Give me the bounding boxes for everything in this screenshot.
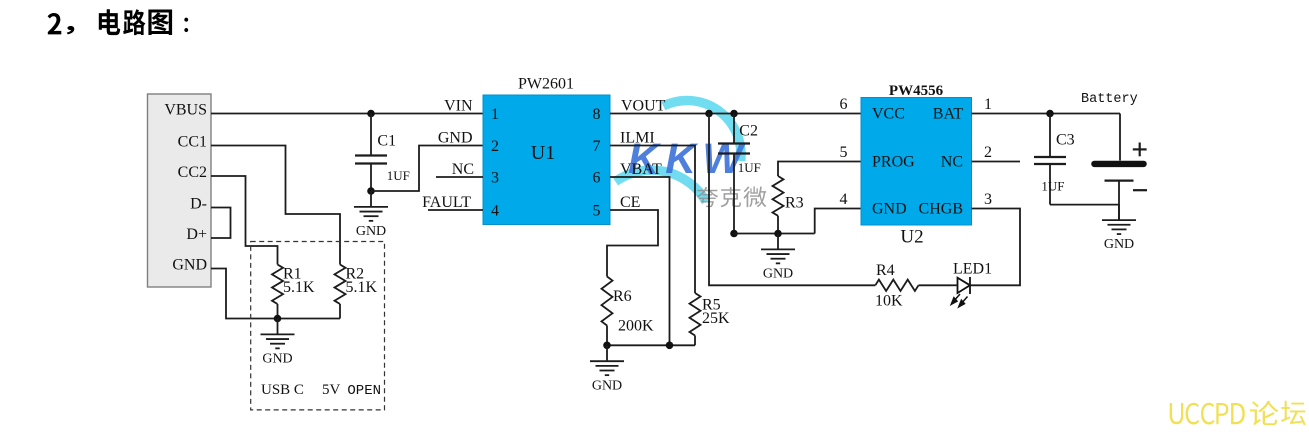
op-chip U1 PW2601 body: [483, 76, 610, 225]
resistor R4: [875, 262, 951, 310]
capacitor C1: [355, 114, 410, 192]
wire CHGB to LED: [970, 209, 1020, 286]
wire D- to D+ bracket: [211, 208, 231, 239]
svg-text:3: 3: [984, 191, 992, 208]
svg-text:GND: GND: [1104, 237, 1134, 252]
glyph P: [1216, 403, 1228, 424]
junction dot VOUT branch: [705, 110, 713, 118]
junction dot C2 top: [730, 110, 738, 118]
junction dot R6 bottom: [603, 342, 611, 350]
svg-text:GND: GND: [438, 129, 473, 146]
watermark KKW text: [628, 136, 749, 183]
watermark swoosh arc: [615, 101, 741, 202]
U2 NC stub wire: [972, 161, 1021, 163]
junction dot VBUS/C1: [367, 110, 375, 118]
LED D1 LED1: [951, 261, 992, 307]
svg-text:USB C: USB C: [261, 382, 304, 398]
wire U2 GND pin down: [815, 209, 861, 234]
watermark 夸克微 gray text: [697, 187, 767, 208]
svg-text:D+: D+: [186, 226, 207, 243]
svg-text:6: 6: [593, 170, 601, 187]
junction dot R1 bottom: [274, 315, 282, 323]
wire BAT to battery: [972, 113, 1121, 115]
svg-text:FAULT: FAULT: [422, 194, 471, 211]
title glyph dian: [99, 9, 120, 35]
svg-text:2: 2: [491, 138, 499, 155]
svg-text:GND: GND: [872, 201, 907, 218]
svg-text:C2: C2: [739, 122, 758, 139]
bottom rail R6-R5: [607, 344, 695, 346]
svg-text:D-: D-: [190, 196, 207, 213]
svg-text:C3: C3: [1056, 132, 1075, 149]
wire VBAT down to rail: [610, 177, 670, 345]
svg-text:CHGB: CHGB: [919, 201, 963, 218]
svg-text:LED1: LED1: [953, 261, 992, 278]
USB-C connector J1 body: [148, 94, 212, 287]
title glyph tu: [148, 9, 172, 34]
svg-text:5: 5: [593, 203, 601, 220]
svg-text:5: 5: [840, 144, 848, 161]
svg-text:CC1: CC1: [178, 134, 207, 151]
title fullwidth comma: [67, 26, 75, 34]
svg-text:VBUS: VBUS: [164, 102, 207, 119]
resistor R3: [773, 162, 862, 234]
svg-text:PROG: PROG: [872, 154, 915, 171]
svg-text:1UF: 1UF: [387, 168, 410, 183]
resistor R6: [602, 277, 655, 346]
title fullwidth colon: [184, 18, 188, 32]
capacitor C3: [1034, 114, 1075, 205]
glyph D: [1231, 403, 1245, 424]
title glyph 2: [48, 13, 62, 34]
svg-text:R4: R4: [876, 262, 895, 279]
svg-text:C1: C1: [377, 132, 396, 149]
svg-text:2: 2: [984, 144, 992, 161]
wire U1 GND pin to C1 bottom: [371, 146, 483, 192]
svg-text:4: 4: [840, 191, 848, 208]
svg-text:1UF: 1UF: [1041, 178, 1064, 193]
svg-text:ILMI: ILMI: [620, 129, 655, 146]
capacitor C2: [718, 114, 761, 234]
svg-text:GND: GND: [172, 257, 207, 274]
wire VOUT to VCC: [610, 113, 861, 115]
svg-text:5V: 5V: [322, 382, 341, 398]
svg-text:1UF: 1UF: [738, 160, 761, 175]
svg-text:GND: GND: [262, 352, 292, 367]
svg-text:OPEN: OPEN: [347, 383, 381, 399]
ground symbol below R1/R2: [261, 319, 295, 367]
svg-text:R6: R6: [613, 288, 632, 305]
svg-text:PW4556: PW4556: [889, 83, 944, 99]
svg-text:6: 6: [840, 96, 848, 113]
svg-text:VBAT: VBAT: [620, 161, 662, 178]
junction dot C1 bottom: [367, 187, 375, 195]
dashed box USB C 5V OPEN: [251, 242, 385, 410]
charger chip U2 PW4556 body: [861, 83, 972, 248]
svg-text:U2: U2: [900, 227, 923, 248]
svg-text:CC2: CC2: [178, 164, 207, 181]
glyph U: [1170, 403, 1184, 424]
svg-text:10K: 10K: [875, 292, 903, 309]
junction dot VBAT on rail: [666, 342, 674, 350]
svg-text:3: 3: [491, 170, 499, 187]
svg-text:VIN: VIN: [444, 97, 473, 114]
glyph C2: [1201, 403, 1215, 425]
title glyph lu: [123, 9, 145, 35]
ground symbol below R3: [761, 234, 795, 282]
resistor R5: [690, 293, 731, 345]
svg-text:1: 1: [491, 106, 499, 123]
glyph lun: [1250, 401, 1279, 425]
resistor R2: [335, 265, 378, 319]
svg-text:R3: R3: [785, 195, 804, 212]
glyph wei: [743, 187, 766, 208]
glyph ke: [721, 187, 742, 207]
ground symbol below battery: [1102, 204, 1136, 252]
svg-text:NC: NC: [941, 154, 963, 171]
svg-text:NC: NC: [452, 161, 474, 178]
ground symbol below R6: [590, 345, 624, 393]
wire CC1 to R2 top: [211, 146, 340, 265]
UCCPD forum yellow watermark: [1170, 401, 1306, 426]
glyph tan: [1281, 401, 1306, 425]
junction dot R3 bottom: [774, 230, 782, 238]
ground symbol below C1: [354, 191, 388, 239]
svg-text:25K: 25K: [702, 310, 730, 327]
svg-text:4: 4: [491, 203, 499, 220]
svg-text:GND: GND: [592, 378, 622, 393]
resistor R1: [272, 265, 315, 319]
svg-text:7: 7: [593, 138, 601, 155]
svg-text:VOUT: VOUT: [621, 97, 666, 114]
svg-text:BAT: BAT: [933, 106, 963, 123]
wire ILMI down to R5: [610, 146, 695, 294]
wire CC2 to R1 top: [211, 176, 278, 265]
svg-text:5.1K: 5.1K: [346, 279, 378, 296]
wire CE down to R6: [607, 210, 658, 277]
junction dot C2 bottom: [730, 230, 738, 238]
svg-text:VCC: VCC: [872, 106, 905, 123]
wire VOUT down to R4: [709, 114, 875, 286]
wire C3 bottom to battery stem: [1050, 204, 1119, 206]
svg-text:1: 1: [984, 96, 992, 113]
svg-text:GND: GND: [763, 267, 793, 282]
svg-text:PW2601: PW2601: [518, 76, 574, 93]
glyph kua: [697, 187, 718, 207]
glyph C: [1186, 403, 1200, 425]
wire VBUS to VIN: [211, 113, 483, 115]
junction dot C3 top: [1046, 110, 1054, 118]
svg-text:200K: 200K: [618, 318, 654, 335]
svg-text:GND: GND: [356, 224, 386, 239]
svg-text:U1: U1: [531, 142, 555, 164]
title: 2, circuit diagram heading: [48, 9, 189, 35]
battery BT1: [1081, 92, 1147, 220]
svg-text:8: 8: [593, 106, 601, 123]
svg-text:CE: CE: [620, 194, 640, 211]
rail C2 to U2 GND corner: [734, 233, 815, 235]
wire USB GND to resistor bottom rail: [211, 269, 340, 319]
svg-text:Battery: Battery: [1081, 92, 1138, 107]
svg-text:5.1K: 5.1K: [283, 279, 315, 296]
